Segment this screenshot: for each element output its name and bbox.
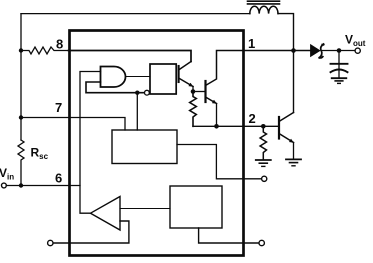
wire inductor to collector node [278,14,294,113]
wire comparator upper input to reference box [120,208,170,210]
wire left vertical Vin branch [20,14,22,140]
wire junction down to oscillator box [136,93,138,130]
node Q2 emitter on pin2 wire [214,124,219,129]
transistor Q1 emitter [179,78,193,87]
inductor L core bars [248,0,280,2]
wire pin 2 [193,125,279,127]
terminal bottom left [48,240,53,245]
terminal pin 5 [262,176,267,181]
diode D1 [311,45,320,56]
node output cap junction [337,48,342,53]
transistor Q3 emitter [279,134,294,143]
ground Q3 emitter [286,158,301,160]
node Q1 emitter junction [191,89,196,94]
inverter bubble on latch input [145,90,150,95]
resistor to pin 8 [21,47,69,54]
wire pin 6 [6,185,80,187]
reference box [170,186,222,228]
wire diode to Vout [321,50,355,52]
node top of Rsc to pin8 resistor [19,48,23,52]
wire reference box to bottom right terminal [199,228,259,243]
and-gate A1 [101,67,126,88]
transistor Q2 base bar [204,81,206,102]
ground capacitor [332,77,347,79]
wire top rail Vin to inductor [21,13,250,15]
wire pin 7 into oscillator [21,118,125,131]
transistor Q3 base bar [278,117,280,139]
node inductor diode junction [291,48,296,53]
transistor Q1 base bar [178,66,180,82]
wire comparator lower input to left terminal [53,221,129,243]
wire comparator output to and-gate input [80,72,101,214]
node Vin junction [19,183,23,187]
transistor Q3 collector [279,113,294,122]
IC package outline [70,31,244,256]
node junction below and-gate [135,91,139,95]
comparator [91,197,121,231]
svg-text:6: 6 [55,171,62,186]
svg-text:Vout: Vout [345,33,366,49]
latch U1 box [150,64,176,94]
transistor Q2 emitter [206,97,217,104]
diode D1 cathode [319,44,324,58]
wire Q1 emitter to Q2 base [193,91,206,93]
node pin7 junction [19,115,23,119]
wire oscillator line to and-gate lower input [86,82,144,93]
wire Q3 emitter to ground [293,143,295,160]
svg-text:1: 1 [248,36,255,51]
oscillator box [112,130,177,164]
wire pin8 rail to Q1 collector [69,51,192,62]
wire oscillator output to pin 5 terminal [177,145,262,179]
ground base resistor [256,159,271,161]
resistor Rsc [18,140,24,186]
transistor Q2 collector and pin 1 rail [206,51,312,86]
svg-text:7: 7 [55,100,62,115]
terminal Vin [2,183,7,188]
svg-text:Vin: Vin [0,166,14,182]
node pin2 external junction [261,124,266,129]
transistor Q1 collector [179,62,191,71]
resistor Q1 emitter to pin2 [190,92,197,127]
svg-text:Rsc: Rsc [31,146,49,162]
wire Q1 emitter down [192,87,194,92]
inductor L windings [250,6,278,13]
wire Q2 emitter down to pin2 [216,104,218,127]
svg-text:8: 8 [56,37,63,52]
terminal Vout [355,48,360,53]
terminal bottom right [259,240,264,245]
svg-text:2: 2 [249,111,256,126]
wire and-gate output to latch [126,76,150,78]
capacitor Cout [338,51,340,64]
resistor base pulldown [260,126,266,159]
